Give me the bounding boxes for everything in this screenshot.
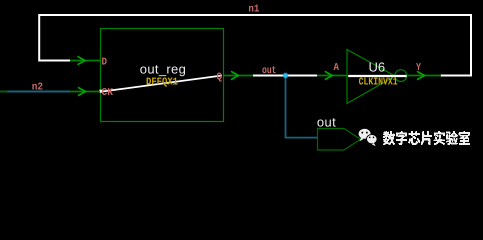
arrow on Y stub <box>417 71 425 79</box>
svg-text:D: D <box>102 56 108 68</box>
flip-flop out_reg box <box>101 29 224 122</box>
svg-text:Y: Y <box>416 62 422 74</box>
inverter U1 triangle body <box>347 50 395 104</box>
svg-text:n1: n1 <box>248 4 259 16</box>
inverter U6 output bubble <box>395 70 407 82</box>
output port out symbol <box>318 129 361 151</box>
svg-text:n2: n2 <box>32 82 43 94</box>
watermark WeChat logo <box>359 129 378 147</box>
svg-text:DFFQX1: DFFQX1 <box>146 77 178 89</box>
arrow on A stub <box>325 71 333 79</box>
pin stub A (green) <box>317 75 347 77</box>
timing-path arc A to Y through U6 (white line) <box>348 75 407 77</box>
svg-text:CLKINVX1: CLKINVX1 <box>359 77 398 89</box>
watermark text 数字芯片实验室 (drawn as pixel runs) <box>383 131 470 145</box>
svg-text:out: out <box>262 65 277 77</box>
arrow on CK stub <box>78 87 86 95</box>
arrow on D stub <box>78 56 86 64</box>
svg-text:out: out <box>317 115 336 130</box>
svg-text:U6: U6 <box>369 60 386 75</box>
pin stub Y (green) <box>407 75 442 77</box>
pin stub Q (green) <box>224 75 254 77</box>
wire net n2 offpage stub (dark green) <box>0 91 8 93</box>
junction node out (cyan dot) <box>282 72 289 79</box>
svg-text:CK: CK <box>102 87 114 99</box>
svg-text:out_reg: out_reg <box>140 61 186 76</box>
arrow on Q stub <box>231 71 239 79</box>
svg-text:A: A <box>334 62 340 74</box>
wire net n2 (teal) <box>8 91 71 93</box>
pin stub CK (green) <box>70 91 100 93</box>
pin stub D (green) <box>70 60 100 62</box>
svg-text:Q: Q <box>217 72 223 84</box>
wire net n1 (highlighted white: Y output loop back to D input) <box>39 15 471 76</box>
wire net out vertical drop to port (teal) <box>286 77 318 138</box>
timing-path arc CK to Q through out_reg (white diagonal) <box>99 90 102 93</box>
wire net out segment Q to A (highlighted white) <box>253 75 317 77</box>
